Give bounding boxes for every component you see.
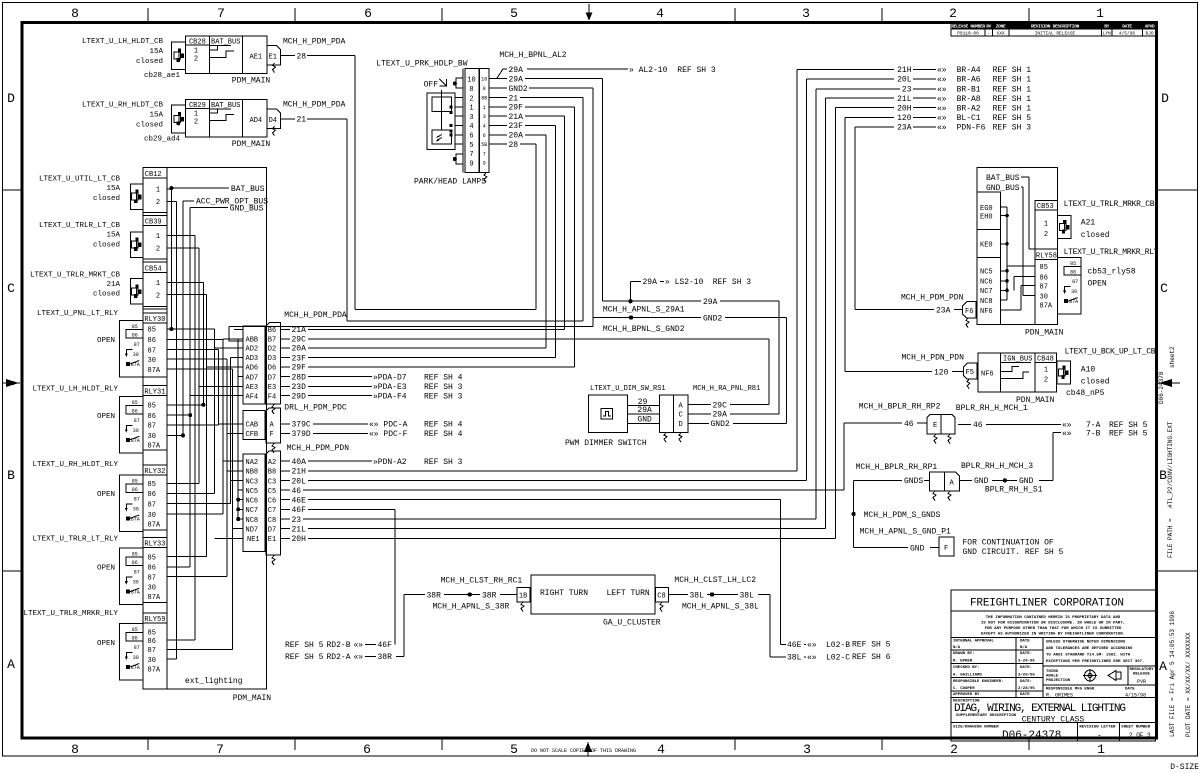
svg-text:LTEXT_U_TRLR_MRKR_RLY: LTEXT_U_TRLR_MRKR_RLY xyxy=(23,610,118,618)
svg-text:PVR: PVR xyxy=(1137,679,1146,685)
svg-text:SUPPLEMENTARY DESCRIPTION: SUPPLEMENTARY DESCRIPTION xyxy=(956,714,1017,718)
svg-text:E1: E1 xyxy=(268,536,276,544)
svg-text:6: 6 xyxy=(363,742,371,757)
svg-text:2: 2 xyxy=(949,6,957,21)
svg-text:C: C xyxy=(7,281,15,296)
wire 46E row xyxy=(280,499,290,501)
svg-text:LTEXT_U_UTIL_LT_CB: LTEXT_U_UTIL_LT_CB xyxy=(39,175,121,183)
svg-text:15A: 15A xyxy=(149,48,163,56)
wire 29A row2 xyxy=(489,78,507,80)
svg-text:29A: 29A xyxy=(637,406,652,415)
svg-text:86: 86 xyxy=(148,413,156,421)
wire 29A row xyxy=(603,300,702,302)
svg-text:29D: 29D xyxy=(292,393,307,402)
svg-text:» AL2-10: » AL2-10 xyxy=(629,66,668,75)
svg-text:2/28/95: 2/28/95 xyxy=(1018,686,1035,691)
svg-text:cb53_rly58: cb53_rly58 xyxy=(1088,267,1136,276)
svg-text:MCH_H_BPNL_AL2: MCH_H_BPNL_AL2 xyxy=(499,51,566,60)
wire 20A xyxy=(489,134,507,136)
svg-text:1: 1 xyxy=(194,47,198,55)
svg-text:1: 1 xyxy=(1096,6,1104,21)
svg-text:KE0: KE0 xyxy=(980,242,993,250)
svg-text:NC5: NC5 xyxy=(980,269,993,277)
svg-text:29A: 29A xyxy=(713,411,728,420)
svg-text:30: 30 xyxy=(148,433,156,441)
svg-text:AE1: AE1 xyxy=(250,54,263,62)
title block legal paragraph xyxy=(951,636,1155,638)
wire GND2 drop xyxy=(592,88,594,326)
svg-text:MCH_H_APNL_S_GND_P1: MCH_H_APNL_S_GND_P1 xyxy=(860,527,951,536)
svg-text:7-B: 7-B xyxy=(1086,429,1101,438)
svg-text:GND2: GND2 xyxy=(509,85,528,94)
svg-text:2: 2 xyxy=(156,245,160,253)
svg-text:DRAWN BY:: DRAWN BY: xyxy=(953,652,975,656)
svg-text:«» PDC-A: «» PDC-A xyxy=(369,421,408,430)
left center alignment arrow xyxy=(3,382,20,384)
wire 20A row xyxy=(280,347,290,349)
svg-text:MCH_H_CLST_RH_RC1: MCH_H_CLST_RH_RC1 xyxy=(441,577,523,586)
svg-text:N/A: N/A xyxy=(953,645,961,650)
svg-text:4/5/96: 4/5/96 xyxy=(1119,31,1136,37)
svg-text:CAB: CAB xyxy=(246,422,259,430)
svg-text:AD3: AD3 xyxy=(246,355,259,363)
svg-text:29C: 29C xyxy=(713,401,728,410)
svg-text:closed: closed xyxy=(136,121,163,129)
svg-text:1: 1 xyxy=(156,280,160,288)
svg-text:LTEXT_U_LH_HLDT_RLY: LTEXT_U_LH_HLDT_RLY xyxy=(32,385,118,393)
svg-text:PWM DIMMER SWITCH: PWM DIMMER SWITCH xyxy=(565,439,647,448)
wire GND right xyxy=(959,479,972,481)
zone ticks top xyxy=(147,8,149,21)
svg-text:FREIGHTLINER CORPORATION: FREIGHTLINER CORPORATION xyxy=(970,598,1124,610)
svg-text:28: 28 xyxy=(509,141,519,150)
svg-text:3: 3 xyxy=(802,6,810,21)
connector 1B xyxy=(517,588,530,603)
svg-text:8: 8 xyxy=(71,742,79,757)
svg-text:OPEN: OPEN xyxy=(97,337,115,345)
svg-text:85: 85 xyxy=(148,481,156,489)
svg-text:BPLR_RH_H_MCH_1: BPLR_RH_H_MCH_1 xyxy=(956,404,1028,413)
wire 21L row xyxy=(280,528,290,530)
svg-text:21: 21 xyxy=(297,116,307,125)
svg-text:87A: 87A xyxy=(148,443,161,451)
svg-text:#TL_P2/CONV/LIGHTING.EXT: #TL_P2/CONV/LIGHTING.EXT xyxy=(1167,421,1174,508)
gauge cluster xyxy=(531,575,655,614)
svg-text:86: 86 xyxy=(1040,274,1048,282)
svg-text:40A: 40A xyxy=(292,458,307,467)
svg-text:CFB: CFB xyxy=(246,431,259,439)
svg-text:REF SH 6: REF SH 6 xyxy=(852,653,891,662)
connector E1 xyxy=(267,46,281,65)
CB28 circuit breaker block xyxy=(186,36,267,73)
wire 29A tap to LS2-10 xyxy=(629,281,631,301)
svg-text:ABB: ABB xyxy=(246,337,259,345)
svg-text:86: 86 xyxy=(148,337,156,345)
dimmer wires xyxy=(627,405,659,407)
svg-text:5: 5 xyxy=(510,6,518,21)
svg-text:D3: D3 xyxy=(268,355,276,363)
svg-text:NC3: NC3 xyxy=(246,478,259,486)
wire 20H row xyxy=(280,537,290,539)
PDM_MAIN main block outline xyxy=(143,168,267,689)
svg-text:46: 46 xyxy=(292,487,302,496)
svg-text:29F: 29F xyxy=(292,364,307,373)
svg-text:RELEASE NUMBER: RELEASE NUMBER xyxy=(951,23,985,29)
svg-text:1: 1 xyxy=(156,233,160,241)
svg-text:D4: D4 xyxy=(269,117,277,125)
svg-text:RIGHT TURN: RIGHT TURN xyxy=(540,589,588,598)
wire 21A long row xyxy=(229,325,593,327)
svg-text:FOR ANY PURPOSE OTHER THAN THA: FOR ANY PURPOSE OTHER THAN THAT FOR WHIC… xyxy=(985,627,1122,631)
svg-text:sheet2: sheet2 xyxy=(1169,346,1176,368)
svg-text:REF SH 1: REF SH 1 xyxy=(993,76,1032,85)
svg-text:1: 1 xyxy=(1097,742,1105,757)
svg-text:closed: closed xyxy=(93,195,120,203)
connector C8 xyxy=(656,588,669,603)
svg-text:closed: closed xyxy=(1081,378,1110,387)
svg-text:»PDN-A2: »PDN-A2 xyxy=(373,458,407,467)
svg-text:87: 87 xyxy=(148,501,156,509)
svg-text:8: 8 xyxy=(483,86,486,92)
wire 28 xyxy=(489,143,507,145)
svg-text:9: 9 xyxy=(483,161,486,167)
connector F5 xyxy=(963,363,977,379)
svg-text:MCH_H_PDM_PDA: MCH_H_PDM_PDA xyxy=(284,311,347,320)
svg-text:«»: «» xyxy=(937,66,947,75)
svg-text:L02-B: L02-B xyxy=(826,641,850,650)
bottom center alignment arrow xyxy=(587,742,589,756)
svg-text:BJO: BJO xyxy=(1146,31,1154,37)
svg-text:1: 1 xyxy=(483,105,486,111)
svg-text:87A: 87A xyxy=(1040,303,1053,311)
svg-text:1: 1 xyxy=(1044,220,1048,228)
svg-text:21A: 21A xyxy=(509,113,524,122)
svg-text:120: 120 xyxy=(897,114,912,123)
svg-text:20L: 20L xyxy=(897,76,912,85)
svg-text:REF SH 5: REF SH 5 xyxy=(285,641,324,650)
wire 23D row to PDA-E3 xyxy=(280,385,290,387)
svg-text:B6: B6 xyxy=(268,327,276,335)
svg-text:R. EPKER: R. EPKER xyxy=(953,660,973,664)
svg-text:BR-A4: BR-A4 xyxy=(957,66,981,75)
svg-text:28D: 28D xyxy=(292,373,307,382)
svg-text:LTEXT_U_PRK_HDLP_BW: LTEXT_U_PRK_HDLP_BW xyxy=(376,59,467,68)
svg-text:NC6: NC6 xyxy=(246,497,259,505)
svg-text:C6: C6 xyxy=(268,497,276,505)
svg-text:PDN-F6: PDN-F6 xyxy=(957,124,986,133)
svg-text:LTEXT_U_RH_HLDT_CB: LTEXT_U_RH_HLDT_CB xyxy=(82,102,164,110)
top right fanout wire 20L xyxy=(805,79,807,481)
svg-text:LTEXT_U_TRLR_MRKR_CB: LTEXT_U_TRLR_MRKR_CB xyxy=(1064,200,1155,209)
svg-text:BPLR_RH_H_MCH_3: BPLR_RH_H_MCH_3 xyxy=(961,462,1033,471)
svg-text:85: 85 xyxy=(148,327,156,335)
bus labels xyxy=(169,186,173,190)
svg-text:86: 86 xyxy=(148,638,156,646)
svg-text:REF SH 3: REF SH 3 xyxy=(424,393,463,402)
wire 20L row xyxy=(280,480,290,482)
svg-text:3: 3 xyxy=(483,114,486,120)
top right fanout wire 21L xyxy=(825,98,827,529)
svg-text:38L: 38L xyxy=(740,591,755,600)
svg-text:86: 86 xyxy=(148,491,156,499)
top right fanout wire 120 xyxy=(844,117,846,371)
svg-text:20L: 20L xyxy=(292,477,307,486)
svg-text:AD4: AD4 xyxy=(250,117,263,125)
svg-text:46E: 46E xyxy=(292,496,307,505)
svg-text:10: 10 xyxy=(481,77,487,83)
svg-text:8: 8 xyxy=(71,6,79,21)
svg-text:C: C xyxy=(1160,281,1168,296)
svg-text:29F: 29F xyxy=(509,104,524,113)
svg-text:«»: «» xyxy=(937,86,947,95)
svg-text:RESPONSIBLE ENGINEER:: RESPONSIBLE ENGINEER: xyxy=(953,680,1003,684)
wire 21H row xyxy=(280,470,290,472)
wire GND2 xyxy=(489,87,507,89)
svg-text:21L: 21L xyxy=(292,526,307,535)
svg-text:E3: E3 xyxy=(268,384,276,392)
wire 29F xyxy=(489,106,507,108)
CB53 cell xyxy=(1035,201,1058,250)
svg-text:GND2: GND2 xyxy=(703,314,722,323)
svg-text:5: 5 xyxy=(510,742,518,757)
svg-text:EH0: EH0 xyxy=(980,213,993,221)
wire 29C drop to dimmer xyxy=(768,339,770,405)
right center alignment arrow xyxy=(1157,382,1180,384)
svg-text:LTEXT_U_TRLR_MRKR_RLY: LTEXT_U_TRLR_MRKR_RLY xyxy=(1064,248,1159,257)
svg-text:87: 87 xyxy=(148,647,156,655)
switch mechanism xyxy=(427,93,455,149)
svg-text:23F: 23F xyxy=(509,122,524,131)
wire 46 right to 7-A xyxy=(958,423,971,425)
svg-text:REF SH 1: REF SH 1 xyxy=(993,105,1032,114)
svg-text:23: 23 xyxy=(902,86,912,95)
wire 7-B xyxy=(1053,432,1061,434)
svg-text:RD2-B: RD2-B xyxy=(327,641,351,650)
wire 29A to AL2-10 xyxy=(489,69,507,78)
svg-text:REF SH 3: REF SH 3 xyxy=(993,124,1032,133)
svg-text:1: 1 xyxy=(1044,366,1048,374)
wire 46F drop xyxy=(394,509,396,644)
svg-text:BAT_BUS: BAT_BUS xyxy=(231,185,265,194)
svg-text:MCH_H_BPLR_RH_RP1: MCH_H_BPLR_RH_RP1 xyxy=(856,463,938,472)
svg-text:379C: 379C xyxy=(292,421,311,430)
svg-text:LAST FILE = Fri Apr 5 14:05:5: LAST FILE = Fri Apr 5 14:05:53 1996 xyxy=(1169,611,1176,737)
svg-text:APPROVED BY: APPROVED BY xyxy=(953,693,980,697)
svg-text:9: 9 xyxy=(469,160,473,168)
svg-text:AD7: AD7 xyxy=(246,374,259,382)
svg-text:C3: C3 xyxy=(268,478,276,486)
svg-text:1B: 1B xyxy=(519,593,527,601)
svg-text:20A: 20A xyxy=(509,132,524,141)
svg-text:F4: F4 xyxy=(268,393,276,401)
svg-text:REF SH 5: REF SH 5 xyxy=(285,653,324,662)
svg-text:LTEXT_U_TRLR_MRKT_CB: LTEXT_U_TRLR_MRKT_CB xyxy=(30,271,121,279)
svg-text:OPEN: OPEN xyxy=(97,640,115,648)
svg-text:A. GAILLIARD: A. GAILLIARD xyxy=(953,674,982,678)
svg-text:AD2: AD2 xyxy=(246,346,259,354)
svg-text:B7: B7 xyxy=(268,337,276,345)
svg-text:87A: 87A xyxy=(148,594,161,602)
svg-text:«»: «» xyxy=(937,95,947,104)
svg-text:LTEXT_U_LH_HLDT_CB: LTEXT_U_LH_HLDT_CB xyxy=(82,38,164,46)
stubs into connector cells xyxy=(234,328,243,330)
svg-text:D7: D7 xyxy=(268,527,276,535)
svg-text:EG0: EG0 xyxy=(980,205,993,213)
svg-text:MCH_H_BPNL_S_GND2: MCH_H_BPNL_S_GND2 xyxy=(603,325,685,334)
svg-text:29A: 29A xyxy=(509,75,524,84)
wire 46 elbow to E connector xyxy=(843,423,845,490)
svg-text:LTEXT_U_TRLR_LT_RLY: LTEXT_U_TRLR_LT_RLY xyxy=(32,536,118,544)
svg-text:A10: A10 xyxy=(1081,365,1096,374)
svg-text:«»: «» xyxy=(807,654,817,663)
svg-text:LTEXT_U_BCK_UP_LT_CB: LTEXT_U_BCK_UP_LT_CB xyxy=(1065,348,1156,357)
title block company banner xyxy=(951,610,1155,612)
svg-text:29A: 29A xyxy=(509,66,524,75)
svg-text:PDM_MAIN: PDM_MAIN xyxy=(233,694,272,703)
svg-text:L02-C: L02-C xyxy=(826,654,850,663)
svg-text:85: 85 xyxy=(148,554,156,562)
svg-text:87A: 87A xyxy=(148,667,161,675)
svg-text:REF SH 4: REF SH 4 xyxy=(424,373,463,382)
svg-text:CHECKED BY:: CHECKED BY: xyxy=(953,666,979,670)
wire 29C row xyxy=(280,338,290,340)
svg-text:20H: 20H xyxy=(292,535,307,544)
CB29 circuit breaker block xyxy=(186,100,267,137)
svg-text:GND: GND xyxy=(637,416,652,425)
svg-text:1: 1 xyxy=(469,105,473,113)
svg-text:APVD: APVD xyxy=(1145,23,1155,29)
wire 29D row to PDA-F4 xyxy=(280,395,290,397)
svg-text:IS NOT FOR DISSEMINATION OR DI: IS NOT FOR DISSEMINATION OR DISCLOSURE. … xyxy=(981,622,1125,626)
svg-text:87: 87 xyxy=(1040,283,1048,291)
projection symbol circle xyxy=(1085,670,1096,681)
svg-text:«»: «» xyxy=(807,641,817,650)
svg-text:INITIAL RELEASE: INITIAL RELEASE xyxy=(1035,31,1076,37)
svg-text:EXCEPTIONS PER FREIGHTLINER ED: EXCEPTIONS PER FREIGHTLINER EDM SECT 307… xyxy=(1046,660,1144,664)
svg-text:NC8: NC8 xyxy=(980,298,993,306)
svg-text:THIRD: THIRD xyxy=(1046,670,1059,674)
svg-text:GND_BUS: GND_BUS xyxy=(230,204,264,213)
svg-text:C8: C8 xyxy=(268,517,276,525)
svg-text:NC5: NC5 xyxy=(246,488,259,496)
circuit breaker CB39 xyxy=(143,258,167,260)
svg-text:20H: 20H xyxy=(897,105,912,114)
connector D4 xyxy=(267,109,281,128)
zone ticks right xyxy=(1157,189,1197,191)
svg-text:DATE: DATE xyxy=(1122,23,1132,29)
svg-text:38R: 38R xyxy=(482,591,497,600)
svg-text:A: A xyxy=(1159,659,1167,674)
svg-text:10: 10 xyxy=(467,76,475,84)
connector R81 xyxy=(659,395,673,432)
top right fanout wire 21H xyxy=(796,69,798,470)
svg-text:D7: D7 xyxy=(268,374,276,382)
svg-text:23: 23 xyxy=(292,516,302,525)
svg-text:REF SH 1: REF SH 1 xyxy=(993,95,1032,104)
relay RLY31 xyxy=(143,384,167,386)
top center alignment arrow xyxy=(588,4,590,20)
svg-text:REF SH 5: REF SH 5 xyxy=(993,114,1032,123)
svg-text:REF SH 1: REF SH 1 xyxy=(993,86,1032,95)
svg-text:SIZE/DRAWING NUMBER: SIZE/DRAWING NUMBER xyxy=(953,725,999,730)
svg-text:«»: «» xyxy=(937,114,947,123)
svg-text:D: D xyxy=(1161,91,1169,106)
svg-text:»PDA-E3: »PDA-E3 xyxy=(373,383,407,392)
wire 379D row to PDC-F xyxy=(280,432,290,434)
svg-text:MCH_H_PDN_PDN: MCH_H_PDN_PDN xyxy=(902,354,965,363)
wire 46 row xyxy=(280,489,290,491)
svg-text:5B: 5B xyxy=(481,142,487,148)
svg-text:DATE: DATE xyxy=(1020,693,1030,697)
connector F xyxy=(939,537,954,556)
third angle projection row xyxy=(1043,665,1155,667)
svg-text:REF SH 3: REF SH 3 xyxy=(677,66,716,75)
svg-text:3/20/95: 3/20/95 xyxy=(1018,673,1035,678)
svg-text:BR-A8: BR-A8 xyxy=(957,95,981,104)
svg-text:ND7: ND7 xyxy=(246,527,259,535)
wire 23F xyxy=(489,124,507,126)
revision table header row xyxy=(952,23,1156,29)
svg-text:PDM_MAIN: PDM_MAIN xyxy=(232,140,271,149)
svg-text:MCH_H_APNL_S_38R: MCH_H_APNL_S_38R xyxy=(433,602,510,611)
svg-text:GND CIRCUIT. REF SH 5: GND CIRCUIT. REF SH 5 xyxy=(963,548,1064,557)
svg-text:NC7: NC7 xyxy=(980,288,993,296)
svg-text:MCH_H_PDM_PDA: MCH_H_PDM_PDA xyxy=(283,37,346,46)
svg-text:D-SIZE: D-SIZE xyxy=(1170,763,1199,772)
svg-text:A2: A2 xyxy=(268,459,276,467)
svg-text:NC6: NC6 xyxy=(980,279,993,287)
svg-text:REF SH 5: REF SH 5 xyxy=(1109,429,1148,438)
svg-text:30: 30 xyxy=(148,357,156,365)
svg-text:21H: 21H xyxy=(292,468,307,477)
svg-text:DATE:: DATE: xyxy=(1020,666,1032,670)
svg-text:D: D xyxy=(7,91,15,106)
svg-text:7: 7 xyxy=(217,6,225,21)
zone ticks bottom xyxy=(147,739,149,750)
svg-text:D: D xyxy=(679,421,683,429)
wire 28D row to PDA-D7 xyxy=(280,376,290,378)
svg-text:REF SH 5: REF SH 5 xyxy=(852,641,891,650)
internal wiring verticals xyxy=(170,188,172,329)
top right fanout wire 23 xyxy=(815,89,817,519)
svg-text:38L: 38L xyxy=(787,654,802,663)
svg-text:15A: 15A xyxy=(149,112,163,120)
svg-text:3: 3 xyxy=(803,742,811,757)
svg-text:LTEXT_U_RH_HLDT_RLY: LTEXT_U_RH_HLDT_RLY xyxy=(32,461,118,469)
svg-text:D06-24378: D06-24378 xyxy=(1158,371,1165,404)
wire 21 xyxy=(281,118,296,120)
svg-text:MCH_H_CLST_LH_LC2: MCH_H_CLST_LH_LC2 xyxy=(674,576,756,585)
svg-text:F5: F5 xyxy=(966,369,974,377)
internal wiring stubs xyxy=(167,188,172,190)
svg-text:EXCEPT AS AUTHORIZED IN WRITIN: EXCEPT AS AUTHORIZED IN WRITING BY FREIG… xyxy=(981,633,1125,637)
svg-text:GA_U_CLUSTER: GA_U_CLUSTER xyxy=(603,619,661,628)
svg-text:FOR CONTINUATION OF: FOR CONTINUATION OF xyxy=(963,539,1054,548)
svg-text:BR-A6: BR-A6 xyxy=(957,76,981,85)
wire 20A drop xyxy=(545,135,547,348)
svg-text:LTEXT_U_PNL_LT_RLY: LTEXT_U_PNL_LT_RLY xyxy=(37,310,119,318)
svg-text:MCH_H_APNL_S_38L: MCH_H_APNL_S_38L xyxy=(682,602,759,611)
wire 29F drop xyxy=(573,107,575,367)
svg-text:AND TOLERANCES ARE DEFINED ACC: AND TOLERANCES ARE DEFINED ACCORDING xyxy=(1046,647,1133,651)
svg-text:B: B xyxy=(7,468,15,483)
svg-text:30: 30 xyxy=(148,585,156,593)
svg-text:20A: 20A xyxy=(292,345,307,354)
svg-text:cb48_nP5: cb48_nP5 xyxy=(1066,389,1105,398)
breaker A10 xyxy=(1057,361,1070,384)
PDN_MAIN block xyxy=(977,168,1058,325)
svg-text:E1: E1 xyxy=(269,54,277,62)
